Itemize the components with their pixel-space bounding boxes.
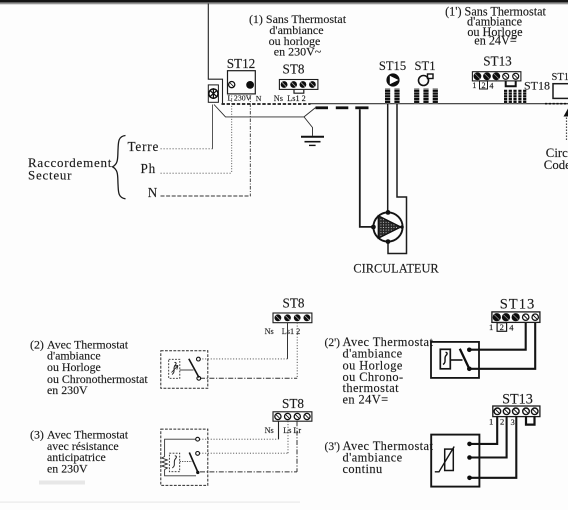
pins ST15: [385, 89, 400, 104]
text (3) Avec Thermostat: [30, 428, 129, 476]
sensor bellows box 2: [169, 359, 180, 378]
svg-text:1: 1: [489, 417, 493, 427]
pivot line box 2: [180, 369, 194, 371]
wire ST12 L to Ph (dotted): [231, 96, 233, 174]
svg-text:4: 4: [489, 82, 493, 91]
label Ns Ls Lr option3: [265, 426, 302, 435]
label L 230V N: [228, 94, 262, 103]
text (1) Sans Thermostat: [249, 12, 347, 59]
wire earth diagonal to Y junction: [214, 105, 316, 136]
wire ST13 t5 to box2' bottom: [471, 322, 535, 368]
ground symbol: [301, 137, 324, 146]
svg-text:Ns: Ns: [265, 426, 274, 435]
svg-text:Code: Code: [544, 158, 568, 172]
wire ST13 t3 to box3': [471, 417, 516, 478]
jumper strap ST13 top: [506, 81, 516, 86]
svg-text:Ns: Ns: [274, 94, 283, 103]
svg-text:en 230V: en 230V: [47, 383, 88, 397]
svg-text:(3'): (3'): [325, 441, 341, 453]
svg-text:continu: continu: [343, 462, 383, 476]
pivot line box 3: [180, 460, 192, 462]
contact top box 3': [467, 442, 472, 447]
earth terminal at chassis: [208, 85, 218, 102]
svg-text:ST8: ST8: [283, 296, 305, 311]
arrow to circuit codeur: [564, 109, 568, 117]
svg-text:(2): (2): [30, 337, 44, 351]
svg-text:en 24V=: en 24V=: [343, 393, 389, 407]
svg-text:(2'): (2'): [325, 337, 341, 349]
icon ST15 pump: [386, 73, 399, 86]
wire ST13 t2 to box3': [471, 417, 507, 458]
bus bar dashed segment: [222, 103, 311, 105]
sensor bellows box 3: [169, 453, 179, 472]
svg-text:ST13: ST13: [502, 392, 533, 408]
wire Ph: [161, 172, 233, 174]
wire ST8 1 to box3: [296, 421, 298, 472]
labels 1 2 4 ST13 top: [472, 81, 493, 91]
wire ST13 t1 to box3': [471, 417, 497, 444]
svg-text:4: 4: [509, 323, 514, 333]
contact top box 2': [467, 348, 472, 353]
svg-text:2: 2: [482, 81, 486, 90]
svg-text:ST12: ST12: [227, 56, 256, 71]
icon ST1: [419, 74, 434, 86]
contact mid box 3': [467, 455, 472, 460]
svg-text:ST10: ST10: [552, 72, 568, 83]
svg-text:ST18: ST18: [524, 79, 550, 93]
contact top box 3: [196, 437, 200, 441]
svg-text:L 230V: L 230V: [228, 94, 252, 103]
svg-text:1: 1: [489, 322, 493, 332]
wire ST13 t4 to box2' top: [471, 322, 526, 349]
wire ST8 Ns to box3: [278, 421, 280, 439]
connector ST18 box: [553, 84, 568, 99]
label Raccordement Secteur: [28, 155, 112, 183]
switch blade box 3: [189, 453, 198, 473]
wire circulator left: [360, 109, 373, 227]
switch blade box 2': [460, 349, 469, 368]
pivot line box 2': [450, 359, 462, 361]
contact mid box 3: [196, 452, 200, 456]
scan edge band top: [0, 0, 568, 4]
connector ST13 option2': [492, 312, 540, 323]
svg-text:1: 1: [472, 81, 476, 90]
svg-text:2: 2: [500, 417, 504, 427]
svg-text:en 230V~: en 230V~: [274, 45, 322, 59]
chassis boundary line: [208, 4, 222, 104]
svg-text:3: 3: [511, 417, 515, 427]
circulator pump: [371, 210, 404, 244]
svg-text:2: 2: [500, 322, 504, 332]
brace: [113, 136, 126, 199]
svg-text:Ls Lr: Ls Lr: [283, 426, 301, 435]
switch blade box 2: [189, 359, 199, 378]
label Ns Ls 1 2: [274, 94, 306, 103]
svg-text:Ls1 2: Ls1 2: [287, 94, 305, 103]
svg-text:(3): (3): [30, 428, 44, 442]
contact bottom box 2: [197, 376, 201, 380]
bus bar solid segment: [311, 103, 568, 105]
thermostat box 3: [161, 429, 208, 485]
svg-text:Ns: Ns: [265, 327, 274, 336]
wire Terre: [161, 148, 213, 150]
svg-text:N: N: [148, 185, 158, 200]
pins ST1: [414, 89, 438, 104]
svg-text:ST8: ST8: [283, 62, 305, 77]
jumper strap ST13 option3': [526, 417, 535, 425]
wire circulator right: [388, 104, 407, 254]
labels 1 2 3 option3': [489, 417, 515, 428]
connector ST12: [228, 71, 256, 94]
svg-text:en 230V: en 230V: [47, 462, 88, 476]
svg-text:ST15: ST15: [379, 59, 406, 73]
text (2) Avec Thermostat: [30, 337, 148, 397]
svg-text:Ph: Ph: [141, 161, 157, 176]
earth strip thick dashes: [316, 106, 369, 109]
connector ST8 top: [279, 80, 318, 90]
svg-text:ST8: ST8: [282, 396, 304, 411]
svg-text:Secteur: Secteur: [28, 167, 72, 182]
thermistor: [445, 449, 454, 470]
label Circuit Codeur clipped: [544, 146, 568, 172]
pins ST13: [504, 90, 526, 104]
faint scan artifacts: [0, 481, 300, 503]
wire N: [161, 195, 251, 197]
wire ST12 N to N (dash-dot): [249, 96, 251, 196]
connector ST13 top: [472, 72, 521, 81]
connector ST8 option3: [273, 412, 312, 421]
wire ST8 1 to box2: [296, 323, 298, 379]
sensor bellows box 2': [440, 349, 450, 369]
svg-text:Terre: Terre: [128, 139, 160, 154]
svg-text:en 24V=: en 24V=: [474, 34, 517, 48]
connector ST8 option2: [273, 313, 312, 323]
inner frame with anticipator resistor: [165, 439, 196, 476]
thermostat box 2: [161, 351, 208, 389]
thermostat box 2': [431, 342, 479, 378]
svg-text:CIRCULATEUR: CIRCULATEUR: [353, 262, 439, 276]
text (1') Sans Thermostat: [445, 5, 546, 48]
wire ST8 Ls to box3: [287, 421, 289, 453]
svg-text:N: N: [256, 94, 262, 103]
wire circulator mid: [387, 104, 389, 213]
thermostat box 3': [431, 435, 479, 487]
contact bottom box 3': [467, 476, 472, 481]
labels 1 2 4 option2': [489, 322, 514, 333]
jumper strap ST8 1-2: [294, 90, 304, 94]
contact bottom box 3: [196, 471, 199, 474]
wire earth terminal to Terre: [212, 105, 214, 149]
connector ST13 option3': [493, 406, 540, 417]
contact bottom box 2': [467, 367, 472, 372]
svg-text:ST13: ST13: [500, 297, 536, 313]
wire ST8 Ls to box2: [287, 323, 289, 359]
text (3') Avec Thermostat: [325, 439, 434, 476]
contact top box 2: [197, 357, 201, 361]
label Ns Ls 1 2 option2: [265, 327, 301, 336]
svg-text:ST13: ST13: [483, 53, 512, 68]
svg-text:ST1: ST1: [415, 59, 436, 73]
text (2') Avec Thermostat: [325, 335, 434, 406]
resistor anticipatrice: [162, 457, 168, 470]
